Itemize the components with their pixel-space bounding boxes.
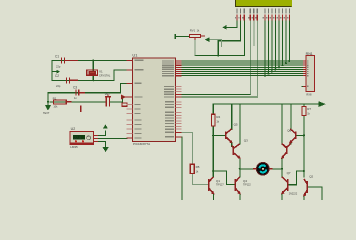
svg-text:Q3: Q3: [244, 138, 248, 142]
svg-text:2N2222: 2N2222: [289, 192, 298, 195]
svg-text:RV1: RV1: [190, 29, 196, 33]
svg-text:PIC16F877A: PIC16F877A: [133, 142, 150, 146]
svg-text:C1: C1: [55, 55, 59, 59]
svg-text:R5: R5: [196, 165, 200, 169]
svg-text:Q5: Q5: [234, 122, 238, 126]
svg-text:R4: R4: [216, 115, 220, 119]
svg-text:22p: 22p: [56, 84, 61, 88]
svg-text:RN1: RN1: [306, 52, 313, 56]
svg-text:TIP122: TIP122: [243, 183, 251, 186]
svg-text:Q1: Q1: [216, 179, 220, 183]
svg-text:C3: C3: [73, 86, 77, 90]
svg-text:TEXT: TEXT: [43, 112, 50, 115]
svg-text:Q2: Q2: [309, 175, 313, 179]
svg-text:R1: R1: [53, 96, 57, 100]
svg-text:TIP127: TIP127: [216, 183, 224, 186]
svg-text:Q4: Q4: [243, 179, 247, 183]
svg-text:Q6: Q6: [287, 129, 291, 133]
svg-text:U2: U2: [71, 127, 76, 131]
svg-text:22p: 22p: [56, 64, 61, 68]
svg-text:27.0: 27.0: [74, 136, 81, 140]
svg-text:LM35: LM35: [70, 145, 78, 149]
svg-text:RST: RST: [105, 92, 111, 96]
svg-text:R7: R7: [307, 107, 311, 111]
svg-text:CRYSTAL: CRYSTAL: [99, 74, 111, 77]
svg-text:X1: X1: [99, 70, 103, 74]
svg-text:Q7: Q7: [287, 171, 291, 175]
svg-text:RX8: RX8: [306, 92, 312, 96]
svg-text:C2: C2: [55, 74, 59, 78]
svg-text:U1: U1: [132, 52, 138, 57]
